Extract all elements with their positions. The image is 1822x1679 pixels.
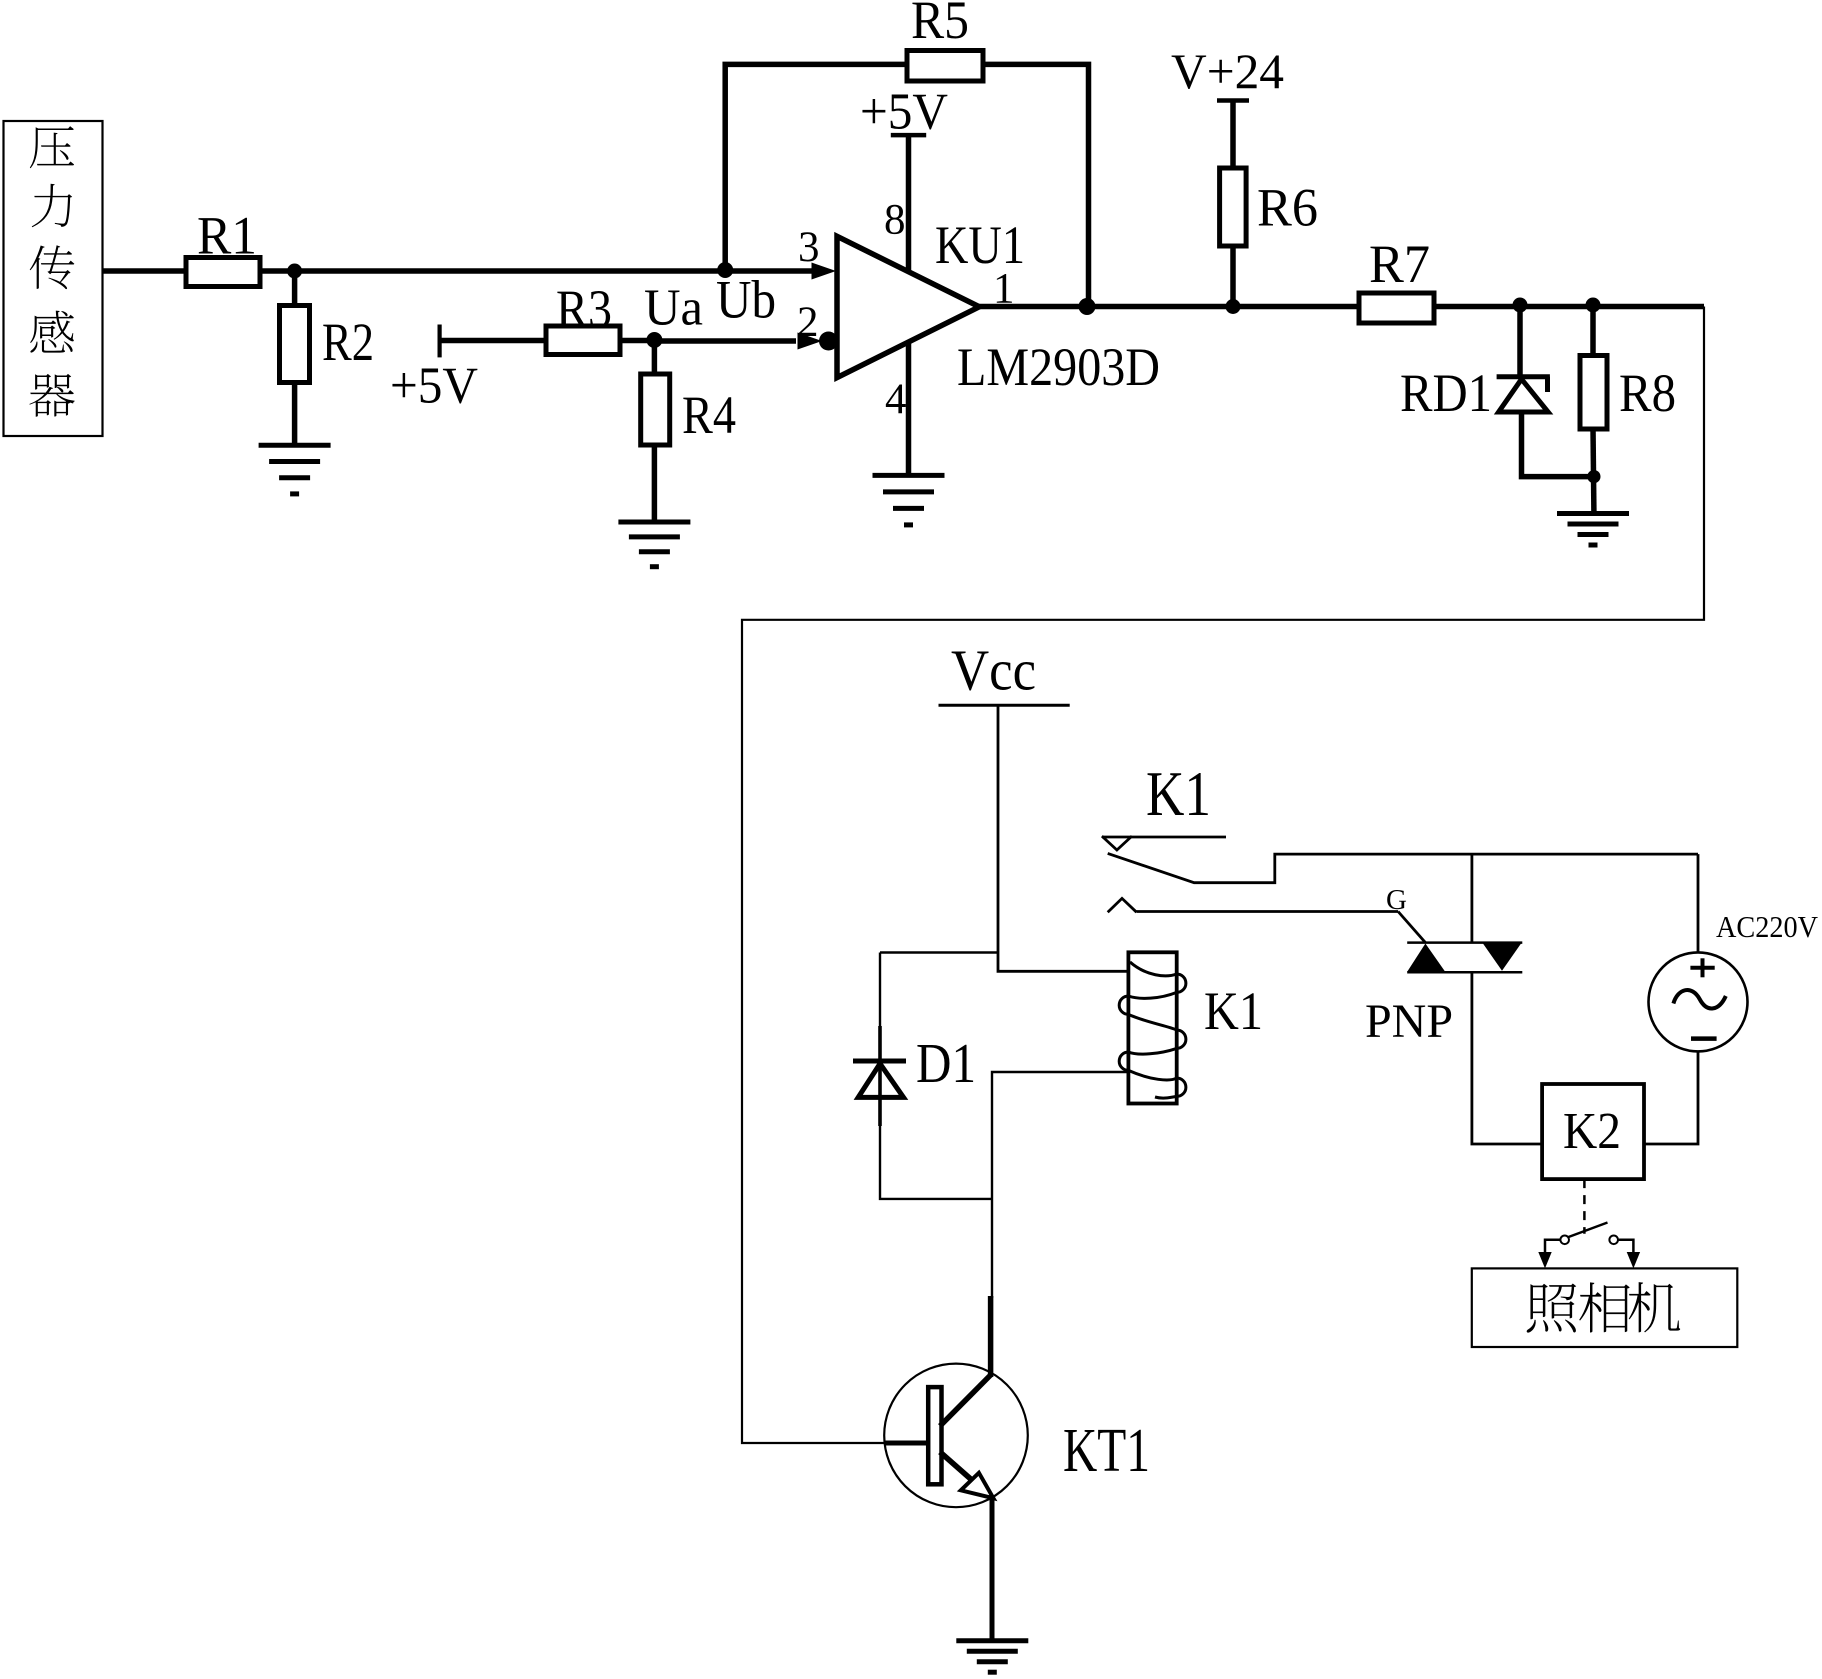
svg-text:R8: R8 <box>1619 363 1676 423</box>
wire R5 to output node <box>983 64 1089 306</box>
svg-text:KT1: KT1 <box>1063 1417 1150 1485</box>
resistor R7 <box>1359 293 1434 323</box>
camera box <box>1472 1268 1738 1347</box>
pin 2 input arrow <box>798 333 823 350</box>
wire AC source top <box>1697 854 1700 952</box>
wire RD1 anode to ground node <box>1522 410 1594 477</box>
arrow right into camera <box>1627 1252 1640 1268</box>
node R8 junction <box>1586 298 1601 313</box>
wire R4 bottom lead to ground <box>652 444 658 522</box>
sensor text 压 <box>30 126 74 168</box>
svg-text:R4: R4 <box>682 385 736 445</box>
AC source circle <box>1649 952 1748 1051</box>
power +5V bar (pin 8) <box>891 133 926 138</box>
power Vcc bar <box>939 704 1070 707</box>
sensor text 器 <box>29 374 74 417</box>
sensor text 传 <box>30 245 75 289</box>
wire switch left to camera <box>1545 1240 1560 1253</box>
ground (R8) <box>1557 514 1629 546</box>
wire R7 to right node <box>1434 304 1704 310</box>
wire coil bottom to collector net <box>992 1072 1127 1298</box>
pin 2 input dot <box>819 332 838 351</box>
wire gate lead <box>1398 912 1425 943</box>
dashed link K2 to switch <box>1583 1179 1586 1234</box>
svg-text:R3: R3 <box>556 279 612 339</box>
svg-text:1: 1 <box>993 266 1015 313</box>
zener diode RD1 <box>1497 377 1550 412</box>
resistor R2 <box>280 306 310 383</box>
relay upper fixed contact <box>1102 836 1226 839</box>
wire +5V to R3 <box>440 338 547 344</box>
node R8 ground junction <box>1587 470 1600 483</box>
wire AC source bottom to K2 <box>1644 1051 1698 1144</box>
wire RD1 top lead <box>1517 307 1523 375</box>
sensor text 感 <box>30 311 74 353</box>
relay movable blade <box>1108 853 1698 882</box>
svg-text:R6: R6 <box>1257 178 1318 238</box>
switch contact circle right <box>1609 1236 1618 1245</box>
resistor R8 <box>1580 356 1607 430</box>
transistor KT1 <box>884 1296 1028 1641</box>
wire op-amp output <box>979 304 1359 310</box>
svg-text:+5V: +5V <box>390 358 478 415</box>
ground (R4) <box>618 522 690 567</box>
relay lower contact arrow <box>1108 898 1137 912</box>
AC source minus <box>1691 1036 1717 1041</box>
AC source plus <box>1690 958 1714 977</box>
wire V+24 to R6 <box>1230 101 1236 170</box>
ground (R2) <box>259 445 331 494</box>
svg-text:K2: K2 <box>1563 1103 1621 1160</box>
wire D1 anode down and right <box>880 1126 992 1199</box>
node junction R1/R2 <box>287 264 302 279</box>
wire D1 top lead <box>879 953 881 1031</box>
wire R8 bottom lead <box>1590 428 1596 511</box>
svg-text:G: G <box>1386 884 1407 916</box>
node RD1 junction <box>1513 298 1528 313</box>
svg-text:Ub: Ub <box>716 270 776 330</box>
pressure sensor box <box>4 121 103 436</box>
wire sensor output <box>103 268 186 274</box>
resistor R3 <box>546 326 620 355</box>
svg-text:Vcc: Vcc <box>951 638 1036 703</box>
wire R4 top lead <box>652 341 658 376</box>
triac (solid state relay input) <box>1407 943 1522 973</box>
relay K2 box <box>1542 1084 1644 1179</box>
svg-text:K1: K1 <box>1204 981 1263 1041</box>
arrow left into camera <box>1538 1252 1551 1268</box>
camera text 相 <box>1579 1282 1630 1332</box>
svg-text:4: 4 <box>885 376 907 423</box>
wire R2 bottom lead to ground <box>292 381 298 444</box>
svg-text:AC220V: AC220V <box>1716 909 1819 944</box>
wire switch right to camera <box>1618 1240 1633 1253</box>
AC source sine <box>1673 990 1725 1008</box>
svg-text:2: 2 <box>797 299 819 346</box>
camera text 照 <box>1527 1283 1577 1332</box>
svg-text:D1: D1 <box>916 1033 976 1095</box>
svg-text:Ua: Ua <box>644 280 703 337</box>
relay lower fixed contact <box>1137 910 1399 913</box>
wire R2 top lead <box>292 271 298 307</box>
ground (pin 4) <box>873 475 945 525</box>
wire feedback Ub up <box>725 64 907 271</box>
resistor R5 <box>907 51 983 82</box>
resistor R1 <box>186 258 260 287</box>
svg-text:LM2903D: LM2903D <box>957 337 1160 397</box>
svg-text:R7: R7 <box>1369 234 1430 294</box>
diode D1 <box>853 1026 906 1126</box>
svg-text:8: 8 <box>884 197 906 244</box>
wire R6 to output net <box>1230 245 1236 307</box>
wire node Ua to pin 2 <box>654 338 796 344</box>
wire blade to triac MT2 <box>1471 854 1474 943</box>
wire +5V to pin 8 <box>906 135 912 272</box>
relay upper contact arrow <box>1102 836 1132 850</box>
svg-text:3: 3 <box>798 224 820 271</box>
wire R8 top lead <box>1590 307 1596 357</box>
resistor R6 <box>1220 168 1247 246</box>
ground (KT1 emitter) <box>956 1641 1028 1673</box>
relay coil K1 box <box>1128 952 1176 1103</box>
svg-text:V+24: V+24 <box>1171 43 1284 99</box>
svg-text:R2: R2 <box>322 312 374 372</box>
wire link from output to KT1 base <box>742 307 1704 1444</box>
power V+24 bar <box>1217 98 1249 103</box>
resistor R4 <box>641 374 670 445</box>
node Ub junction <box>717 262 733 278</box>
switch lever <box>1569 1223 1608 1238</box>
wire D1 cathode to Vcc net <box>880 951 998 953</box>
relay coil K1 winding <box>1119 962 1186 1098</box>
wire Vcc to relay coil <box>998 705 1127 971</box>
wire R3 to node Ua <box>620 338 654 344</box>
svg-text:K1: K1 <box>1146 758 1211 829</box>
svg-text:RD1: RD1 <box>1400 363 1492 423</box>
wire pin 4 to ground <box>906 342 912 473</box>
svg-text:R5: R5 <box>911 0 969 50</box>
switch contact circle left <box>1560 1236 1569 1245</box>
op-amp KU1 triangle <box>837 236 979 377</box>
wire triac MT1 to K2 <box>1472 972 1542 1144</box>
node R6 junction <box>1226 299 1241 314</box>
node Ua junction <box>646 332 662 348</box>
pin 3 input arrow <box>812 263 837 280</box>
node output junction (feedback) <box>1079 298 1096 315</box>
svg-text:PNP: PNP <box>1365 995 1453 1048</box>
svg-text:+5V: +5V <box>860 84 948 141</box>
svg-text:R1: R1 <box>197 206 257 266</box>
wire R1 to node A <box>260 268 813 274</box>
camera text 机 <box>1629 1282 1680 1332</box>
sensor text 力 <box>32 184 72 227</box>
power +5V tick (R3) <box>438 325 442 358</box>
